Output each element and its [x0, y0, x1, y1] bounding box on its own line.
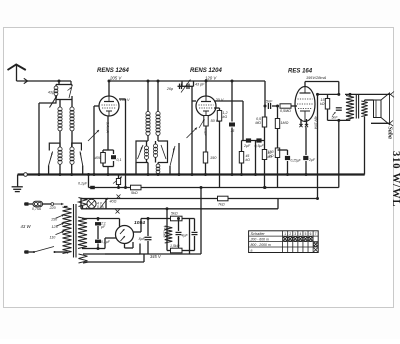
wire antenna to input network — [58, 80, 61, 83]
svg-text:RENS 1204: RENS 1204 — [190, 68, 222, 74]
grid stopper 0.5M — [280, 104, 291, 108]
secondary heater winding — [79, 254, 88, 263]
svg-text:800 - 2000 m: 800 - 2000 m — [251, 243, 271, 247]
wire 345V bottom — [105, 253, 201, 255]
svg-text:205 V: 205 V — [109, 76, 122, 81]
IF loop 1 frame — [136, 141, 148, 163]
anode rail 205V — [109, 80, 265, 82]
capacitor right of filter — [192, 231, 198, 233]
antenna coil primary winding — [59, 100, 61, 108]
antenna ground plug — [24, 173, 28, 177]
svg-text:1MΩ: 1MΩ — [281, 121, 289, 125]
tone resistor 15k — [318, 93, 339, 95]
svg-text:0,1A: 0,1A — [97, 205, 104, 209]
resistor 50k AVC to bus — [242, 140, 244, 142]
IF loop2 coil — [155, 141, 157, 144]
screen wire 160V — [119, 98, 126, 100]
svg-text:5kΩ: 5kΩ — [131, 191, 138, 195]
svg-text:0,25µF: 0,25µF — [291, 159, 302, 163]
cross mark 2 — [116, 210, 120, 214]
speaker bottom wire — [364, 117, 366, 122]
svg-text:a: a — [251, 249, 253, 253]
padder capacitors 26p 43pF — [157, 81, 159, 88]
cathode lead tube1 — [107, 116, 109, 150]
lower coil left — [59, 144, 61, 148]
rectifier bottom pin — [124, 244, 126, 249]
resistor 5k filter top — [167, 218, 170, 220]
grid wire tube2 — [192, 100, 196, 102]
field coil — [165, 226, 173, 243]
plate wire to transformer — [304, 82, 306, 87]
wire rail to IF coil 1 — [147, 81, 149, 112]
ground — [17, 175, 19, 187]
svg-text:43 W: 43 W — [21, 224, 32, 229]
primary return wire — [328, 119, 351, 121]
svg-text:150: 150 — [51, 218, 57, 222]
smoothing caps 2x1uF — [97, 219, 99, 222]
svg-text:125: 125 — [52, 225, 59, 229]
resistor 7k on 198 line — [218, 196, 229, 201]
schematic sheet border — [4, 28, 394, 308]
wave band tap bracket right — [72, 143, 82, 150]
AVC line caps 2uF 0.5uF — [243, 140, 265, 142]
ground bus (chassis line) — [18, 173, 365, 175]
speaker — [374, 100, 382, 118]
svg-text:F=4,1kΩ: F=4,1kΩ — [163, 226, 167, 238]
switch blade to bus — [113, 177, 122, 184]
svg-text:310 W/WL: 310 W/WL — [390, 151, 400, 207]
band switch right — [82, 166, 84, 175]
svg-text:MΩ: MΩ — [255, 121, 261, 125]
tube U1 RENS1264 — [99, 96, 119, 116]
svg-text:0,1µF: 0,1µF — [78, 182, 88, 186]
power transformer primary — [64, 206, 68, 208]
svg-text:2µF: 2µF — [243, 144, 251, 148]
IF loop1 coil — [146, 144, 148, 146]
pilot lamp — [86, 199, 88, 201]
IF loop2 switch — [161, 145, 166, 159]
connection 208 line down to filter — [166, 209, 168, 251]
HV bottom wire — [82, 248, 98, 250]
antenna series switch — [71, 85, 73, 87]
field feed vertical — [338, 120, 340, 186]
secondary return to bus — [364, 121, 366, 175]
svg-text:0,75A: 0,75A — [32, 207, 42, 211]
svg-text:4µF: 4µF — [182, 234, 189, 238]
svg-text:3: 3 — [294, 232, 296, 236]
cathode join to bus — [103, 166, 114, 168]
IF coil 1 — [146, 112, 150, 116]
svg-text:0,5MΩ: 0,5MΩ — [280, 109, 291, 113]
svg-text:0,1: 0,1 — [117, 158, 122, 162]
rectifier tube 1054 — [116, 226, 134, 244]
resistor 1.5k filter bottom — [167, 250, 170, 252]
line heater 198 — [81, 198, 318, 200]
power transformer core — [73, 204, 75, 258]
volume pot 50k — [204, 116, 208, 127]
small arrow mark — [333, 112, 336, 116]
svg-text:0,1µF: 0,1µF — [101, 240, 111, 244]
tube3 heater pins — [300, 119, 302, 126]
svg-text:RES 164: RES 164 — [288, 69, 313, 75]
svg-text:110: 110 — [50, 236, 56, 240]
line B minus 187 — [99, 187, 339, 189]
svg-text:2: 2 — [289, 232, 291, 236]
svg-text:6: 6 — [310, 232, 312, 236]
wire tuning cap to grid — [94, 105, 99, 107]
resistor 5k on 187 line — [131, 185, 142, 190]
svg-text:43p: 43p — [48, 91, 54, 95]
tone capacitor 5nF — [327, 109, 329, 120]
svg-text:7kΩ: 7kΩ — [218, 203, 225, 207]
antenna plug connector — [17, 80, 72, 82]
svg-text:120 V: 120 V — [205, 76, 217, 81]
lower coil right — [71, 144, 73, 148]
tube U2 RENS1204 — [196, 96, 216, 116]
svg-text:Schalter: Schalter — [251, 231, 266, 236]
svg-text:5nF: 5nF — [332, 116, 339, 120]
table X marks — [283, 237, 287, 241]
svg-text:kΩ: kΩ — [269, 154, 274, 158]
svg-text:1: 1 — [284, 232, 286, 236]
voltage tap 150 — [56, 215, 65, 218]
svg-text:1054: 1054 — [134, 220, 145, 226]
wire avc mid down — [255, 141, 257, 175]
svg-text:150: 150 — [210, 155, 217, 160]
secondary HV winding — [78, 217, 87, 249]
svg-text:Saba: Saba — [386, 127, 392, 139]
svg-text:43 pF: 43 pF — [195, 83, 205, 87]
svg-text:kΩ: kΩ — [246, 158, 251, 162]
vertical 201 from 187 — [200, 188, 202, 255]
svg-text:400: 400 — [95, 155, 102, 160]
svg-text:40Ω: 40Ω — [110, 200, 117, 204]
svg-text:345 V: 345 V — [150, 254, 162, 259]
filter right rail — [189, 219, 191, 251]
small resistor x118 — [118, 175, 120, 179]
line bias 208.5 — [81, 208, 278, 210]
oscillator trimmer branch — [178, 143, 180, 175]
trimmer capacitor 43pF — [50, 96, 58, 108]
tuning capacitor gang 1 — [93, 106, 95, 175]
output transformer core — [355, 95, 357, 119]
antenna series coil — [56, 84, 72, 86]
cathode resistor 400 — [103, 149, 114, 151]
rectifier output wire — [134, 231, 142, 233]
voltage tap 110 — [56, 231, 65, 234]
antenna — [16, 65, 18, 82]
IF bottom coil to bus — [147, 163, 149, 175]
svg-text:4: 4 — [300, 232, 302, 236]
wave band tap bracket left — [49, 143, 60, 150]
resistor 10k — [262, 150, 266, 160]
secondary pilot winding — [79, 198, 87, 207]
antenna coil secondary winding — [71, 100, 73, 108]
resistor 1M vertical — [277, 106, 279, 119]
svg-text:195V/28mA: 195V/28mA — [306, 75, 327, 80]
voltage tap 220 — [43, 203, 52, 205]
svg-text:0,1µF: 0,1µF — [204, 129, 208, 136]
grid entry tube3 — [295, 105, 297, 107]
tuning capacitor gang 2 — [191, 128, 193, 175]
output transformer primary — [345, 93, 391, 95]
cathode branch 2uF — [305, 127, 307, 155]
svg-text:8µF: 8µF — [139, 237, 146, 241]
svg-text:1,5kΩ: 1,5kΩ — [170, 244, 180, 248]
svg-text:26p: 26p — [166, 87, 173, 91]
svg-text:kΩ: kΩ — [320, 102, 325, 106]
corner 317 line198 — [316, 197, 319, 200]
cathode capacitor 0.1uF — [113, 150, 115, 154]
capacitor 0.25uF — [278, 149, 288, 151]
coupling capacitor 5nF — [264, 105, 267, 108]
IF loop 2 frame — [158, 141, 168, 163]
svg-text:RENS 1264: RENS 1264 — [97, 68, 129, 74]
wire 219 to filter — [148, 218, 167, 220]
band switch left — [48, 166, 50, 175]
voltage tap 125 — [56, 223, 64, 226]
svg-text:200 - 600 m: 200 - 600 m — [250, 238, 269, 242]
screen wire 20V right — [214, 100, 243, 102]
cross mark 1 — [117, 195, 121, 199]
svg-text:kΩ: kΩ — [223, 115, 228, 119]
resistor 40 ohm variable — [105, 199, 107, 209]
output transformer secondary — [361, 101, 367, 117]
svg-text:2µF: 2µF — [308, 158, 316, 162]
heater loop lines — [83, 253, 140, 255]
node antenna network bottom — [56, 99, 72, 101]
resistor 1.2k tube2 — [214, 107, 220, 109]
svg-text:220: 220 — [49, 206, 56, 210]
tube U3 RES164 — [295, 87, 315, 122]
grid leak 0.5M vertical — [264, 106, 266, 117]
mains plug top — [24, 203, 33, 205]
cap 0.1uF bus to 187 — [88, 175, 90, 188]
feed line down — [317, 94, 319, 198]
svg-text:5kΩ: 5kΩ — [171, 212, 178, 216]
IF coil 2 — [157, 88, 159, 112]
screen bypass branch — [231, 81, 233, 122]
svg-text:7: 7 — [315, 232, 317, 236]
fuse 0.5A — [33, 201, 43, 207]
pilot lamp circuit frame — [80, 199, 82, 209]
IF loop1 switch — [138, 145, 144, 159]
capacitor 8uF — [147, 219, 149, 237]
capacitor 4uF — [178, 219, 180, 232]
cathode resistor 150 — [205, 126, 207, 152]
anode rail corner down — [264, 81, 266, 106]
corner 278 — [277, 199, 279, 209]
mains switch — [24, 251, 34, 253]
HV top wire — [82, 218, 120, 220]
wire left branch down — [38, 103, 40, 175]
svg-text:5: 5 — [305, 232, 307, 236]
band switch table — [249, 231, 319, 253]
svg-text:5nF: 5nF — [266, 100, 273, 104]
oscillator switch blade — [169, 166, 171, 175]
resistor 100k — [275, 148, 279, 158]
